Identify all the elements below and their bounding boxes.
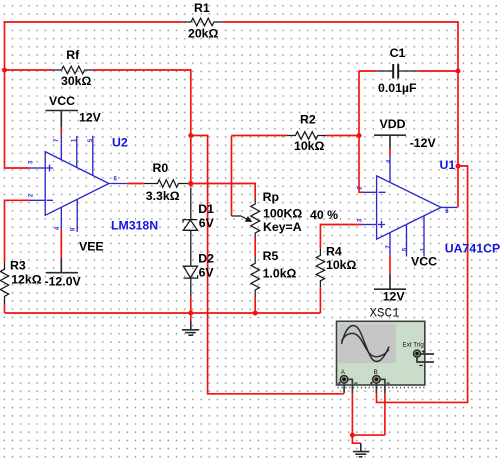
wire U1 out to scope B — [377, 166, 468, 402]
svg-text:UA741CP: UA741CP — [445, 241, 500, 255]
svg-text:VEE: VEE — [79, 239, 104, 253]
wire top R1 left — [5, 21, 184, 23]
svg-text:U1: U1 — [440, 158, 456, 172]
wire C1 left vertical to U1 minus — [359, 71, 363, 192]
resistor R0 — [144, 180, 188, 188]
U1 plus sign — [378, 221, 385, 228]
U1 pin 5 — [406, 224, 408, 256]
svg-text:10kΩ: 10kΩ — [326, 258, 357, 272]
resistor R3 — [0, 262, 8, 304]
D1 cathode bar — [183, 220, 197, 223]
black components — [0, 18, 418, 304]
wire C1 right lead — [418, 70, 458, 72]
resistor Rf — [52, 66, 92, 74]
wire D2 to rail — [190, 297, 192, 313]
resistor R2 — [287, 132, 327, 140]
wire pot bottom to R5 — [254, 238, 256, 257]
svg-text:10kΩ: 10kΩ — [294, 139, 325, 153]
pin numbers U1 — [358, 159, 450, 251]
wire Rf left — [5, 69, 53, 71]
svg-text:100KΩ: 100KΩ — [263, 206, 302, 220]
wire R4 bottom — [319, 287, 321, 313]
wire VCC stem red U2 — [60, 127, 62, 135]
potentiometer wiper arrowhead — [245, 216, 253, 222]
U2 pin 7 — [60, 135, 62, 160]
wire U1 VCC stem red — [389, 256, 391, 274]
svg-text:1.0kΩ: 1.0kΩ — [263, 267, 297, 281]
capacitor C1 left lead — [376, 70, 392, 72]
Ext Trig terminal — [414, 350, 421, 357]
svg-text:R0: R0 — [153, 161, 169, 175]
scope trace 1 — [342, 326, 390, 362]
op-amp U2 — [30, 135, 127, 232]
U1 pin 1 — [423, 216, 425, 257]
potentiometer Rp body — [251, 199, 260, 238]
wire wiper vertical — [231, 136, 233, 217]
U2 pin 3 stub — [30, 167, 46, 169]
svg-text:Rf: Rf — [66, 48, 80, 62]
wire left vertical — [5, 21, 30, 168]
svg-text:40 %: 40 % — [310, 208, 338, 222]
svg-text:R2: R2 — [300, 113, 316, 127]
U1 pin 2 stub — [363, 191, 377, 193]
node scope ground — [350, 433, 355, 438]
svg-text:VCC: VCC — [49, 94, 75, 108]
svg-text:R3: R3 — [10, 259, 26, 273]
wire U2 out to R0 — [127, 183, 144, 185]
wire U2 minus to R3 — [5, 200, 30, 262]
wire VEE stem red — [60, 230, 62, 258]
resistor R1 — [183, 18, 222, 26]
resistor R4 — [316, 248, 324, 287]
wire rail to mid ground — [190, 313, 192, 322]
svg-text:VDD: VDD — [380, 117, 406, 131]
node scope A branch — [188, 133, 193, 138]
U1 pin 4 — [389, 156, 391, 183]
capacitor C1 plates — [393, 64, 398, 79]
svg-text:3.3kΩ: 3.3kΩ — [146, 189, 180, 203]
wire top R1 right — [222, 21, 458, 23]
scope trace 2 — [342, 333, 390, 356]
power VCC (U2) — [46, 111, 79, 128]
wire right vertical to U1 output — [457, 21, 459, 208]
diode D1 (zener) — [183, 188, 198, 297]
U1 pin 6 stub — [441, 206, 457, 208]
power VCC (U1) — [374, 274, 406, 290]
node R2 to C1 — [357, 133, 362, 138]
power VDD — [374, 135, 406, 148]
wire U1 plus input — [320, 225, 361, 249]
wire A minus to B minus — [352, 434, 385, 436]
svg-text:20kΩ: 20kΩ — [188, 27, 219, 41]
svg-text:12V: 12V — [383, 290, 406, 304]
oscilloscope XSC1 — [337, 321, 435, 393]
svg-text:-12.0V: -12.0V — [45, 275, 82, 289]
U2 pin 6 stub — [109, 183, 127, 185]
power VEE — [46, 258, 78, 273]
svg-text:R4: R4 — [326, 245, 342, 259]
svg-text:6V: 6V — [199, 216, 215, 230]
svg-text:-12V: -12V — [410, 136, 437, 150]
U2 pin 5 — [92, 136, 94, 176]
svg-text:R5: R5 — [263, 249, 279, 263]
U2 pin 2 stub — [30, 199, 46, 201]
U2 minus sign — [47, 199, 54, 201]
U2 pin 1 — [76, 136, 78, 168]
svg-text:XSC1: XSC1 — [370, 307, 400, 321]
svg-text:U2: U2 — [112, 136, 128, 150]
node U1 output branch — [456, 164, 461, 169]
svg-text:12V: 12V — [79, 111, 102, 125]
svg-text:0.01µF: 0.01µF — [378, 81, 417, 95]
svg-text:Ext Trig: Ext Trig — [403, 342, 425, 349]
svg-text:D1: D1 — [198, 202, 214, 216]
U2 pin 8 — [76, 199, 78, 232]
D2 cathode bar — [184, 275, 198, 278]
D1 body — [183, 220, 197, 230]
U2 pin 4 — [60, 207, 62, 229]
wire scope B minus down — [384, 393, 386, 435]
svg-text:Key=A: Key=A — [263, 220, 302, 234]
svg-text:D2: D2 — [198, 252, 214, 266]
node Rf tap — [2, 68, 7, 73]
svg-text:12kΩ: 12kΩ — [11, 273, 42, 287]
potentiometer Rp wiper — [232, 216, 247, 219]
svg-text:LM318N: LM318N — [111, 218, 158, 232]
node D2 ground — [188, 311, 193, 316]
node R5 ground — [253, 311, 258, 316]
svg-text:VCC: VCC — [411, 255, 437, 269]
svg-text:C1: C1 — [390, 46, 406, 60]
wire to scope ground — [352, 435, 360, 443]
node C1 right — [456, 69, 461, 74]
pin numbers U2 — [29, 138, 118, 231]
wire scope A minus down — [351, 393, 353, 435]
wire VDD stem red — [389, 149, 391, 156]
node U2 output — [188, 181, 193, 186]
U1 pin 3 stub — [362, 224, 377, 226]
wire R2 right — [327, 135, 359, 137]
wire Rf right — [93, 70, 191, 188]
wire R0 to pot top — [188, 184, 255, 199]
wire wiper to R2 — [232, 135, 287, 137]
wire ground rail — [5, 312, 321, 314]
ground (mid) — [182, 322, 199, 336]
svg-text:6V: 6V — [199, 266, 215, 280]
svg-text:R1: R1 — [194, 1, 210, 15]
U2 plus sign — [46, 165, 53, 172]
wire C1 left lead — [359, 70, 376, 72]
svg-text:30kΩ: 30kΩ — [61, 74, 92, 88]
resistor R5 — [251, 256, 259, 297]
capacitor C1 right lead — [399, 70, 419, 72]
op-amp U1 — [362, 156, 458, 257]
U1 minus sign — [379, 191, 386, 193]
wire branch to scope A — [191, 136, 344, 394]
U1 pin 7 — [389, 233, 391, 256]
wire R5 bottom — [254, 297, 256, 313]
diode D2 body — [183, 266, 197, 278]
wire R3 bottom — [4, 304, 6, 313]
svg-text:Rp: Rp — [263, 190, 279, 204]
ground (scope) — [353, 443, 370, 457]
